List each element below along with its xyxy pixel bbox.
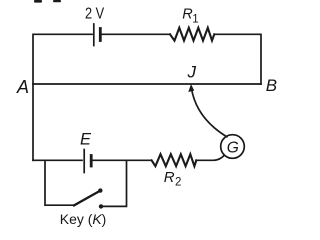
svg-text:Key (K): Key (K)	[60, 212, 107, 227]
svg-text:1: 1	[192, 14, 198, 26]
svg-text:R: R	[164, 169, 175, 186]
svg-text:2: 2	[175, 176, 181, 188]
svg-text:A: A	[16, 77, 29, 97]
svg-text:2 V: 2 V	[85, 5, 104, 22]
svg-text:E: E	[80, 130, 92, 148]
svg-text:B: B	[266, 76, 277, 95]
svg-text:G: G	[227, 140, 239, 157]
svg-text:J: J	[187, 63, 197, 82]
